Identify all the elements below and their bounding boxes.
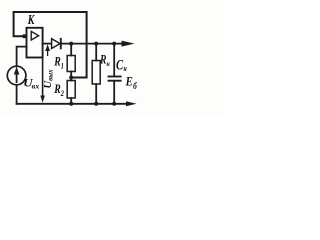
arrowhead down on comparator ground lead: [40, 96, 45, 103]
svg-text:R2: R2: [53, 83, 64, 98]
svg-text:К: К: [27, 13, 35, 28]
svg-text:Сн: Сн: [116, 56, 127, 74]
comparator K amplifier triangle symbol: [31, 31, 38, 40]
resistor R2: [67, 81, 75, 99]
wire: R1 branch top: [70, 44, 72, 56]
node: bottom rail / Cн: [112, 102, 116, 106]
wire: Cн branch top: [113, 44, 115, 76]
svg-text:R1: R1: [53, 55, 63, 70]
wire: R1 bottom to R2 top through divider tap: [70, 72, 72, 81]
svg-text:Еб: Еб: [125, 74, 138, 92]
wire: Rн bottom to rail: [95, 84, 97, 104]
arrowhead: output rail continuation: [122, 41, 135, 47]
svg-text:Uвых: Uвых: [43, 69, 55, 89]
svg-text:Uвх: Uвх: [23, 76, 39, 90]
wire: bottom common rail: [17, 103, 127, 105]
wire: Cн bottom to rail: [113, 81, 115, 104]
node: output rail / Cн: [112, 42, 116, 46]
wire: R2 bottom to rail: [70, 98, 72, 104]
node: output rail / R1: [69, 42, 73, 46]
node: divider tap R1-R2: [69, 76, 73, 80]
diode VD1: [52, 39, 60, 49]
resistor Rн (load): [92, 61, 100, 85]
wire: output rail from diode cathode to right edge: [61, 43, 121, 45]
wire: input from source Uвх to comparator lower input: [17, 47, 27, 67]
resistor R1: [67, 56, 75, 72]
wire: feedback loop from R1-R2 divider tap over the top to comparator input: [14, 12, 87, 78]
wire: comparator output to diode anode: [43, 43, 52, 45]
node: bottom rail / Rн: [94, 102, 98, 106]
node: bottom rail / R2: [69, 102, 73, 106]
svg-text:Rн: Rн: [99, 53, 110, 68]
voltage arrow Uвых (up arrowhead at output wire): [45, 44, 50, 51]
source Uвх (circle with up arrow): [7, 66, 26, 85]
node: output rail / Rн: [94, 42, 98, 46]
wire: source bottom lead: [16, 85, 18, 104]
wire: comparator ground lead down to rail: [42, 58, 44, 96]
node: comparator input junction: [22, 34, 26, 38]
wire: Rн branch top: [95, 44, 97, 61]
comparator K (box): [27, 28, 43, 58]
capacitor Cн (storage): [108, 76, 122, 78]
arrowhead: bottom rail continuation: [126, 101, 137, 106]
